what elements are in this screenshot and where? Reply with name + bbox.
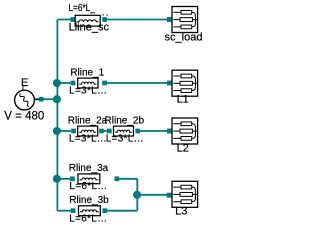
svg-text:Rline_3b: Rline_3b	[69, 195, 109, 206]
node bus-Rline_1	[53, 79, 61, 87]
source sine squiggle	[20, 94, 29, 107]
terminal Rline_2b in	[107, 129, 112, 134]
wire bus to Lline_sc	[57, 19, 70, 21]
terminal Rline_3b out	[102, 208, 107, 213]
svg-text:L=6*L…: L=6*L…	[69, 214, 107, 225]
bus vertical wire	[56, 20, 58, 211]
wire bus to Rline_3a	[57, 178, 70, 180]
svg-text:..: ..	[102, 7, 110, 18]
load L1	[172, 70, 198, 96]
inductor Rline_3b	[79, 206, 101, 216]
svg-text:Rline_3a: Rline_3a	[69, 163, 109, 174]
wire Rline_2a to Rline_2b	[104, 130, 107, 132]
svg-text:Lline_sc: Lline_sc	[69, 22, 110, 34]
terminal L1 in	[167, 81, 172, 86]
voltage source E	[15, 86, 35, 110]
terminal Rline_2a out	[99, 129, 104, 134]
svg-text:L=3*L…: L=3*L…	[106, 134, 144, 145]
terminal L3 in	[167, 193, 172, 198]
svg-text:sc_load: sc_load	[165, 31, 203, 43]
wire Lline_sc to sc_load	[107, 19, 167, 21]
inductor Rline_3a	[78, 174, 100, 184]
wire Rline_2b to L2	[140, 130, 167, 132]
wire join to L3	[137, 194, 167, 196]
wire source stub (black)	[34, 98, 39, 100]
terminal Lline_sc in	[70, 17, 75, 22]
wire Rline_3b to join bar	[107, 210, 137, 212]
svg-text:L2: L2	[177, 142, 189, 154]
terminal Rline_1 in	[71, 81, 76, 86]
wire join bar vertical	[136, 179, 138, 211]
terminal Rline_3a in	[70, 176, 75, 181]
wire Rline_3a to join bar	[119, 178, 137, 180]
source top tick	[22, 86, 24, 90]
load L2	[172, 118, 198, 144]
inductor Rline_2a	[78, 126, 98, 136]
terminal Lline_sc out	[102, 17, 107, 22]
wire bus to Rline_3b	[57, 210, 71, 212]
svg-text:Rline_1: Rline_1	[70, 68, 104, 79]
svg-text:Rline_2a: Rline_2a	[68, 116, 108, 127]
terminal L2 in	[167, 129, 172, 134]
terminal Rline_3b in	[71, 208, 76, 213]
svg-text:V = 480: V = 480	[4, 110, 44, 122]
wire bus to Rline_1	[57, 82, 70, 84]
node bus-Rline_3a	[53, 175, 61, 183]
svg-text:Rline_2b: Rline_2b	[105, 116, 145, 127]
wire Rline_1 to L1	[107, 82, 167, 84]
terminal source out	[39, 97, 44, 102]
inductor Rline_2b	[114, 126, 134, 136]
wire bus to Rline_2a	[57, 130, 71, 132]
inductor Lline_sc	[75, 15, 100, 26]
node bus-Rline_2a	[53, 127, 61, 135]
node bus-source	[53, 95, 61, 103]
terminal Rline_3a out	[115, 176, 120, 181]
svg-text:L=6*L…: L=6*L…	[69, 181, 107, 192]
node join-L3	[133, 191, 141, 199]
terminal Rline_2b out	[135, 129, 140, 134]
svg-text:L=3*L…: L=3*L…	[69, 85, 107, 96]
load L3	[172, 181, 198, 207]
svg-text:L=3*L…: L=3*L…	[69, 134, 107, 145]
terminal sc_load in	[167, 17, 172, 22]
svg-text:L1: L1	[177, 94, 189, 106]
svg-text:E: E	[21, 77, 28, 89]
load sc_load	[172, 7, 198, 33]
terminal Rline_2a in	[71, 129, 76, 134]
wire source to bus	[43, 98, 56, 100]
inductor Rline_1	[78, 78, 98, 88]
terminal Rline_1 out	[102, 81, 107, 86]
svg-text:L=6*L_: L=6*L_	[68, 3, 95, 14]
svg-text:L3: L3	[175, 206, 187, 218]
